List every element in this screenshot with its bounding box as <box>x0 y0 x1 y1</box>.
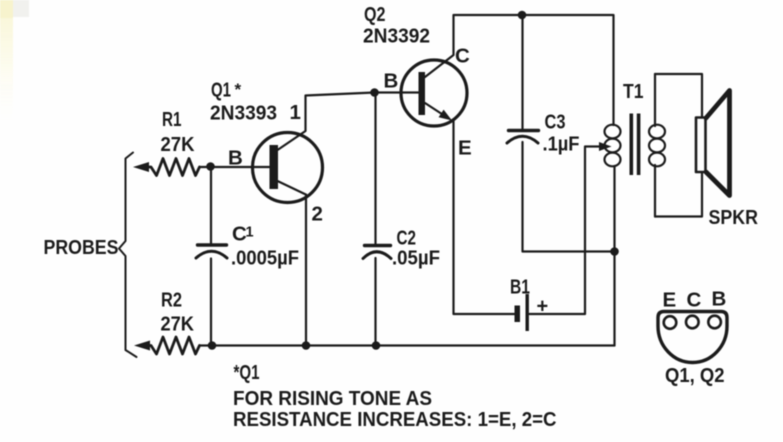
svg-text:1: 1 <box>246 225 254 241</box>
svg-text:FOR RISING TONE AS: FOR RISING TONE AS <box>233 387 432 410</box>
svg-text:SPKR: SPKR <box>709 206 759 229</box>
svg-text:27K: 27K <box>161 133 195 156</box>
svg-text:B: B <box>384 70 399 93</box>
svg-text:RESISTANCE INCREASES: 1=E, 2=C: RESISTANCE INCREASES: 1=E, 2=C <box>233 408 557 431</box>
svg-text:1: 1 <box>290 101 301 124</box>
svg-text:B1: B1 <box>510 276 530 299</box>
svg-text:C: C <box>687 289 702 312</box>
svg-text:E: E <box>458 137 472 160</box>
svg-text:C: C <box>455 45 470 68</box>
svg-text:B: B <box>228 147 243 170</box>
svg-text:C3: C3 <box>545 111 566 134</box>
svg-text:.05µF: .05µF <box>392 247 440 270</box>
svg-text:2N3392: 2N3392 <box>363 25 430 48</box>
svg-text:27K: 27K <box>161 313 195 336</box>
svg-text:R1: R1 <box>162 108 182 131</box>
svg-text:Q1: Q1 <box>211 79 231 102</box>
svg-text:2N3393: 2N3393 <box>210 102 277 125</box>
svg-text:.1µF: .1µF <box>543 133 580 156</box>
svg-text:R2: R2 <box>161 289 182 312</box>
svg-text:*Q1: *Q1 <box>234 361 260 384</box>
svg-text:+: + <box>537 296 549 318</box>
svg-text:Q1, Q2: Q1, Q2 <box>665 364 725 387</box>
svg-text:PROBES: PROBES <box>44 236 119 259</box>
svg-text:*: * <box>235 80 242 99</box>
svg-text:2: 2 <box>312 203 323 226</box>
svg-text:T1: T1 <box>623 80 644 103</box>
svg-text:Q2: Q2 <box>364 3 386 26</box>
svg-text:E: E <box>663 289 677 312</box>
svg-text:.0005µF: .0005µF <box>231 247 299 270</box>
svg-text:B: B <box>712 288 727 311</box>
